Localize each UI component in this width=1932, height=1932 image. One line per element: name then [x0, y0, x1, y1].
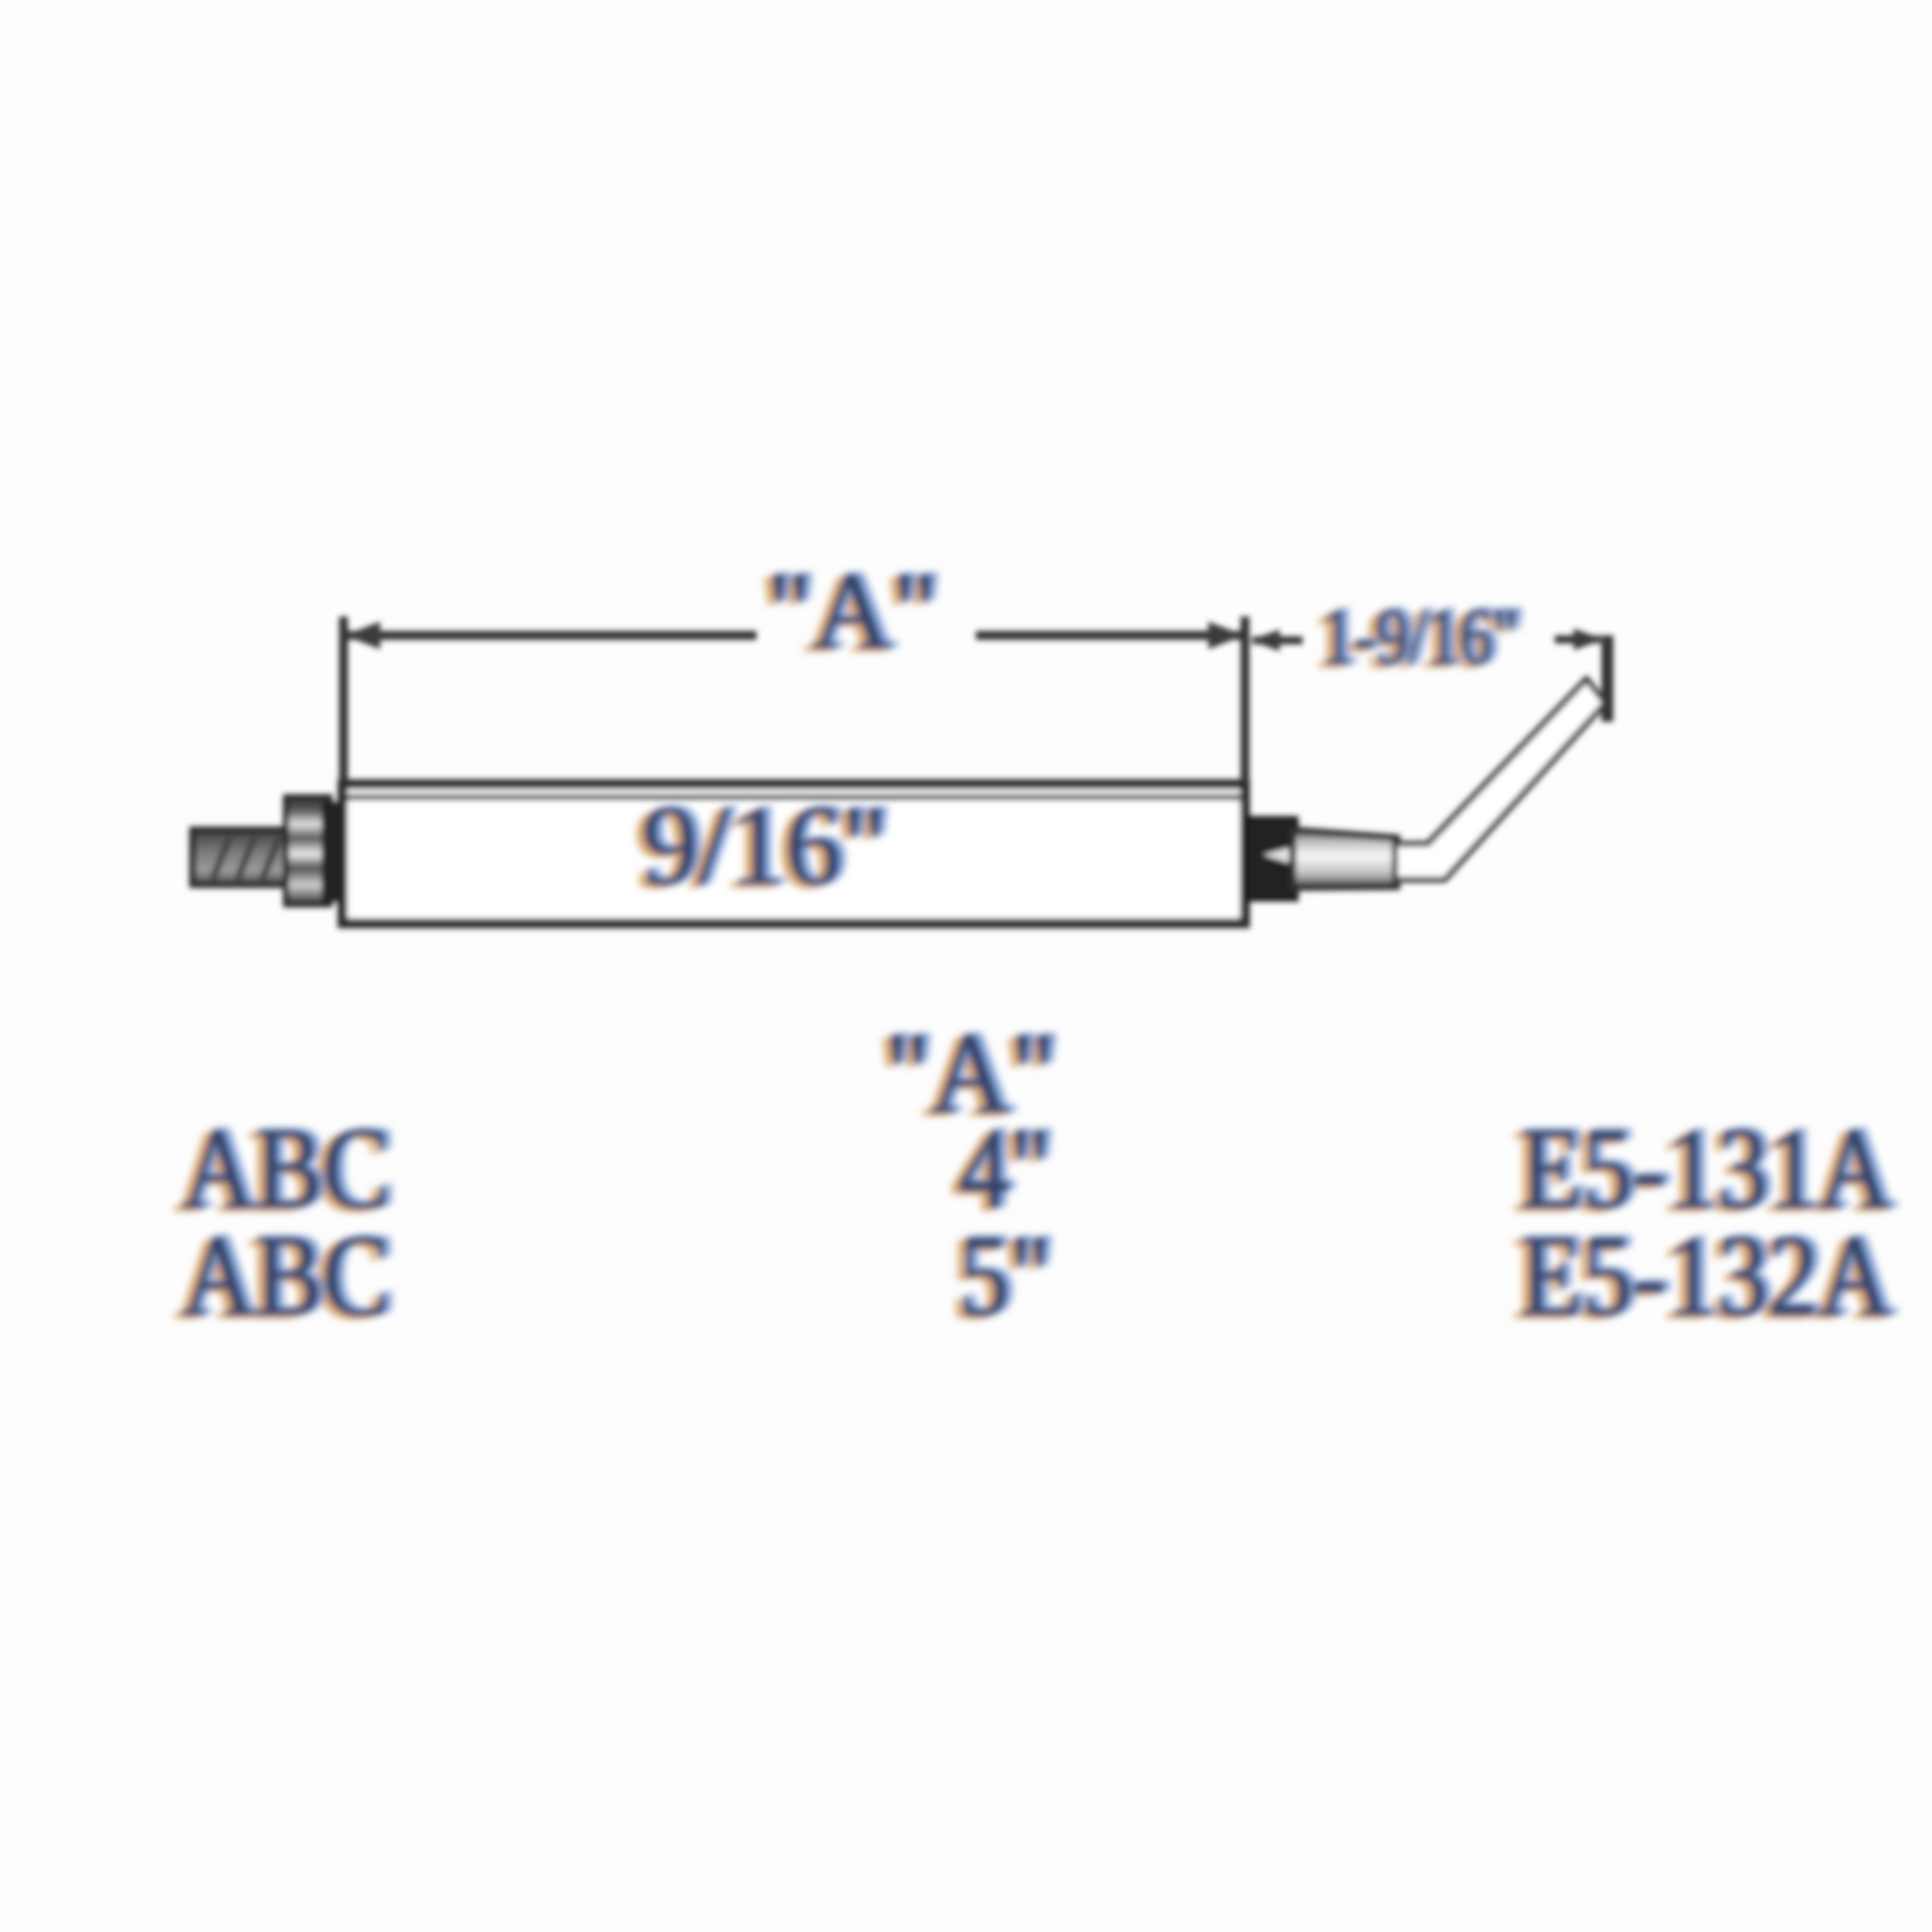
threaded stud (left terminal)	[193, 830, 288, 885]
svg-text:ABC: ABC	[182, 1212, 390, 1340]
dimension A: right extension line	[1241, 617, 1250, 782]
crimp ferrule (black) at right end of body	[1247, 818, 1297, 899]
blue dimension and table text with chromatic fringes	[174, 548, 1898, 1343]
electrode tip end tick bar	[1601, 635, 1613, 722]
svg-text:5": 5"	[958, 1212, 1050, 1340]
svg-text:9/16": 9/16"	[642, 782, 888, 908]
svg-text:"A": "A"	[766, 550, 937, 671]
body inner top line	[347, 794, 1241, 800]
dimension A: left extension line	[340, 617, 348, 782]
dimension 1-9/16: left arrow pointing left at extension line	[1253, 636, 1303, 644]
svg-text:E5-132A: E5-132A	[1520, 1212, 1891, 1340]
electrode body (ceramic insulator rectangle)	[343, 784, 1245, 923]
dimension A: left arrowhead	[345, 621, 380, 649]
svg-text:1-9/16": 1-9/16"	[1320, 592, 1518, 681]
dimension A: line right segment	[976, 631, 1241, 640]
metal sleeve tube	[1293, 830, 1397, 888]
bent electrode rod	[1395, 679, 1605, 880]
dimension A: right arrowhead	[1208, 621, 1244, 649]
dimension 1-9/16: right arrow pointing right at end tick	[1555, 635, 1600, 643]
hex nut at left end of body	[286, 797, 342, 904]
dimension A: line left segment	[347, 631, 757, 640]
washer dark band against body	[322, 802, 342, 901]
